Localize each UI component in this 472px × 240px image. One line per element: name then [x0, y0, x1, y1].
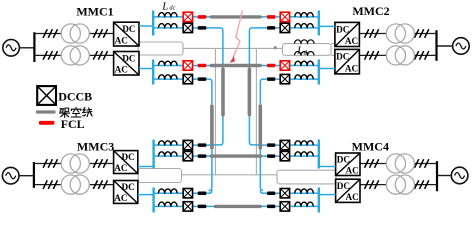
DC bus MMC3 upper (node 3P) [152, 140, 154, 169]
overhead line 1-3 lower section [210, 106, 214, 148]
DCCB B6R [280, 151, 289, 160]
svg-text:MMC1: MMC1 [76, 4, 113, 18]
AC source G4 [451, 167, 468, 184]
three-phase marks feeder 3a [43, 159, 107, 168]
transformer T2a [386, 24, 414, 43]
wire U1b to DC bus 1N [139, 68, 153, 70]
AC source G2 [453, 38, 470, 55]
FCL F1L [198, 15, 207, 19]
wire AC feeder 1a [34, 33, 113, 35]
three-phase marks feeder 2a [365, 29, 429, 38]
label L_dc (neutral reactors) [296, 45, 310, 57]
FCL F3R [267, 64, 275, 68]
wire AC feeder 3b [34, 184, 114, 186]
svg-text:DC: DC [121, 152, 134, 162]
wire MMC4 branch row y=145.1 [259, 144, 319, 146]
transformer T4a [386, 154, 414, 173]
fault arrow (lightning strike on line 1-2) [230, 11, 243, 63]
cable terminator row v13 right [267, 143, 275, 147]
svg-text:DC: DC [121, 182, 134, 192]
wire neutral trunk bottom (MMC3-MMC4 metallic return) [182, 174, 278, 176]
svg-text:dc: dc [169, 5, 175, 12]
AC source G1 [3, 40, 20, 57]
wire U3b to DC bus 3N [138, 194, 154, 196]
inductor L1L (MMC row y=16.9) [159, 13, 178, 17]
node neutral junction dot [274, 46, 277, 49]
cable terminator row v24 right [267, 191, 275, 195]
wire G2 to AC bus 2 [437, 45, 453, 47]
DCCB B7L [183, 189, 192, 198]
inductor L8L (MMC row y=206.4) [159, 202, 178, 206]
wire MMC2 to line 2-4b (row y=79.1 + drop x=260.3) [260, 79, 319, 104]
DCCB B1L (with FCL, red) [183, 12, 192, 21]
three-phase marks feeder 1a [43, 29, 107, 38]
wire line 1-2 pole P (row y=16.9) [153, 16, 319, 18]
node neutral-bus MMC1 (white junction box) [138, 42, 183, 55]
inductor L5R (MMC row y=145.1) [295, 141, 313, 145]
node neutral-bus MMC3 (white junction box) [138, 169, 181, 183]
DCCB B2R [280, 23, 289, 32]
wire MMC2 to line 2-4a (row y=27.9 + drop x=249.4) [249, 28, 318, 66]
inductor L_dc neutral lower [295, 52, 315, 56]
cable terminator row 3-4N left [198, 205, 207, 209]
three-phase marks feeder 4b [365, 180, 429, 189]
inductor L6R (MMC row y=156.1) [295, 152, 313, 156]
inductor L3L (MMC row y=65.5) [159, 61, 178, 65]
svg-text:L: L [296, 45, 303, 57]
transformer T3b [61, 175, 89, 194]
legend label FCL [61, 117, 85, 131]
inductor L3R (MMC row y=65.5) [295, 61, 313, 65]
transformer T2b [386, 46, 414, 65]
DCCB B5R [280, 140, 289, 149]
legend DCCB symbol [37, 86, 56, 105]
converter U4a (DC/AC) [336, 153, 360, 176]
FCL F3L [198, 64, 207, 68]
converter U2a (DC/AC) [335, 22, 360, 46]
wire line 1-2 pole N (row y=65.5) [153, 65, 319, 67]
transformer T1b [61, 46, 89, 65]
svg-text:AC: AC [115, 36, 128, 46]
transformer T3a [61, 154, 89, 173]
svg-text:dc: dc [304, 49, 310, 56]
inductor L2R (MMC row y=27.9) [295, 24, 313, 28]
svg-text:DCCB: DCCB [58, 89, 92, 103]
inductor L4R (MMC row y=79.1) [295, 75, 313, 79]
wire U2a to DC bus 2P [319, 25, 335, 27]
svg-text:DC: DC [122, 24, 135, 34]
svg-text:DC: DC [337, 154, 350, 164]
legend label overhead line (jia-kong-xian) [60, 107, 92, 117]
wire G1 to AC bus 1 [19, 47, 34, 49]
wire MMC1 to line 1-3a (row y=27.9 + drop x=222.9) [153, 28, 223, 66]
converter U1a (DC/AC) [114, 22, 139, 46]
cable terminator row 3-4P left [198, 154, 207, 158]
three-phase marks feeder 1b [43, 51, 107, 60]
DCCB B8R [280, 202, 289, 211]
wire G3 to AC bus 3 [19, 175, 34, 177]
label L_dc (pole reactor) [161, 0, 175, 12]
cable terminator row v13 left [198, 143, 207, 147]
wire U1a to DC bus 1P [139, 25, 153, 27]
wire line 1-3b lower section (to MMC3 row y=193.2) [209, 150, 212, 191]
wire neutral stub to MMC2 lower converter [331, 54, 335, 56]
wire U4b to DC bus 4N [319, 194, 336, 196]
inductor L2L (MMC row y=27.9) [159, 24, 178, 28]
AC bus 2 [435, 30, 437, 61]
svg-text:L: L [161, 0, 168, 12]
AC bus 1 [33, 32, 35, 62]
svg-text:AC: AC [345, 63, 358, 73]
DCCB B3R (with FCL, red) [280, 61, 289, 70]
legend label DCCB [58, 89, 92, 103]
wire line 3-4 pole N (row y=206.4) [154, 205, 319, 207]
wire G4 to AC bus 4 [437, 175, 451, 177]
overhead line 1-2N [211, 64, 260, 67]
DCCB B6L [183, 151, 192, 160]
DCCB B1R (with FCL, red) [280, 12, 289, 21]
svg-text:MMC4: MMC4 [352, 139, 389, 153]
wire AC feeder 2a [359, 33, 436, 35]
label MMC4 [352, 139, 389, 153]
wire AC feeder 1b [34, 54, 113, 56]
inductor L_dc neutral upper [295, 40, 315, 44]
svg-text:MMC3: MMC3 [77, 139, 114, 153]
wire neutral stub to MMC2 upper converter [331, 43, 335, 45]
cable terminator row v24 left [198, 191, 207, 195]
svg-text:AC: AC [114, 193, 127, 203]
DCCB B8L [183, 202, 192, 211]
converter U4b (DC/AC) [336, 179, 360, 202]
transformer T4b [386, 175, 414, 194]
wire AC feeder 3a [34, 163, 114, 165]
cable terminator row 1-3a left [198, 26, 207, 30]
cable terminator row 3-4N right [267, 205, 275, 209]
wire AC feeder 4a [360, 163, 437, 165]
svg-text:AC: AC [345, 36, 358, 46]
wire neutral trunk top (MMC1-MMC2 metallic return) [183, 47, 283, 49]
node neutral-bus MMC4 (white junction box) [277, 170, 336, 184]
DC bus MMC2 lower (node 2N) [318, 60, 320, 85]
legend FCL symbol [39, 121, 54, 125]
inductor L4L (MMC row y=79.1) [159, 75, 178, 79]
label MMC3 [77, 139, 114, 153]
three-phase marks feeder 4a [365, 159, 429, 168]
overhead line 1-3 section [221, 69, 225, 114]
three-phase marks feeder 3b [43, 180, 107, 189]
wire AC feeder 4b [360, 184, 437, 186]
svg-text:AC: AC [346, 165, 359, 175]
DC bus MMC3 lower (node 3N) [152, 188, 154, 213]
label MMC1 [76, 4, 113, 18]
wire U4a to DC bus 4P [319, 166, 336, 168]
cable terminator row 1-3a right [267, 26, 275, 30]
inductor L1R (MMC row y=16.9) [295, 13, 313, 17]
AC bus 3 [33, 162, 35, 188]
overhead line 1-2P [211, 15, 260, 18]
DCCB B2L [183, 23, 192, 32]
svg-text:DC: DC [336, 25, 349, 35]
overhead line 2-4 lower section [258, 106, 262, 148]
DC bus MMC1 lower (node 1N) [152, 60, 154, 85]
wire MMC3 branch row y=193.2 elbow [154, 190, 212, 193]
DCCB B4R [280, 74, 289, 83]
cable terminator row 1-3b left [198, 77, 207, 81]
inductor L7L (MMC row y=193.2) [159, 189, 178, 193]
inductor L7R (MMC row y=193.2) [295, 189, 313, 193]
svg-text:FCL: FCL [61, 117, 85, 131]
FCL F1R [267, 15, 275, 19]
DCCB B3L (with FCL, red) [183, 61, 192, 70]
three-phase marks feeder 2b [365, 51, 429, 60]
inductor L6L (MMC row y=156.1) [159, 152, 178, 156]
cable terminator row 3-4P right [267, 154, 275, 158]
wire neutral riser right [255, 48, 257, 174]
wire MMC3 branch row y=145.1 [154, 144, 214, 146]
AC source G3 [2, 167, 19, 184]
legend overhead-line symbol [38, 110, 55, 113]
svg-text:MMC2: MMC2 [352, 4, 389, 18]
converter U2b (DC/AC) [335, 49, 360, 74]
converter U3b (DC/AC) [114, 181, 138, 204]
svg-text:AC: AC [346, 192, 359, 202]
svg-text:AC: AC [115, 65, 128, 75]
node neutral-bus MMC2 (white box with smoothing reactors) [283, 44, 332, 56]
wire line 2-4b lower section (to MMC4 row y=193.2) [260, 150, 263, 191]
converter U3a (DC/AC) [114, 151, 138, 174]
svg-text:DC: DC [336, 52, 349, 62]
wire U2b to DC bus 2N [319, 68, 335, 70]
wire line 2-4a lower section [249, 66, 260, 145]
wire line 3-4 pole P (row y=156.1) [154, 155, 319, 157]
DC bus MMC4 lower (node 4N) [318, 188, 320, 213]
DCCB B4L [183, 74, 192, 83]
overhead line 3-4P [211, 154, 260, 157]
overhead line 3-4N [215, 205, 260, 208]
svg-text:AC: AC [114, 163, 127, 173]
wire neutral riser left [214, 48, 216, 174]
svg-text:DC: DC [122, 53, 135, 63]
DC bus MMC2 upper (node 2P) [318, 11, 320, 36]
converter U1b (DC/AC) [114, 52, 139, 76]
inductor L8R (MMC row y=206.4) [295, 202, 313, 206]
DCCB B7R [280, 189, 289, 198]
DC bus MMC4 upper (node 4P) [318, 140, 320, 169]
cable terminator row 1-3b right [267, 77, 275, 81]
transformer T1a [61, 24, 89, 43]
label MMC2 [352, 4, 389, 18]
wire U3a to DC bus 3P [138, 166, 154, 168]
inductor L5L (MMC row y=145.1) [159, 141, 178, 145]
DC bus MMC1 upper (node 1P) [152, 11, 154, 36]
wire line 1-3a lower section [212, 66, 223, 145]
overhead line 2-4 section [248, 69, 252, 114]
DCCB B5L [183, 140, 192, 149]
wire AC feeder 2b [359, 54, 436, 56]
AC bus 4 [436, 161, 438, 191]
wire MMC4 branch row y=193.2 elbow [260, 190, 319, 193]
svg-text:DC: DC [337, 181, 350, 191]
wire MMC1 to line 1-3b (row y=79.1 + drop x=211.9) [153, 79, 212, 104]
